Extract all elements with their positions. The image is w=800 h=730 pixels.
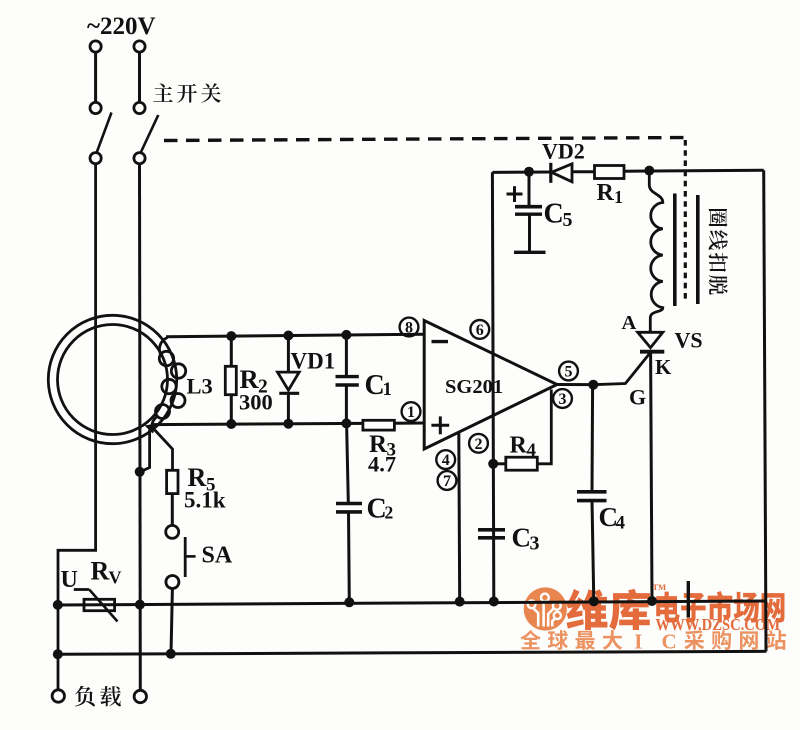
wire: C1 top lead	[345, 335, 348, 376]
svg-text:R: R	[91, 557, 110, 586]
label 负载 (load)	[75, 686, 95, 707]
wire: VD1 anode lead	[287, 335, 290, 373]
svg-text:G: G	[629, 385, 646, 410]
svg-text:SA: SA	[202, 543, 233, 569]
svg-text:3: 3	[530, 533, 540, 555]
capacitor C5 plus mark	[507, 193, 523, 196]
wire: right side return conductor	[764, 170, 766, 651]
dashed mechanical trip linkage, vertical run	[684, 140, 687, 302]
node: switch lower contact L	[90, 153, 101, 164]
node: switch upper contact L	[90, 102, 101, 113]
capacitor C5	[515, 205, 542, 209]
varistor RV body	[84, 599, 115, 610]
wire: mains conductor L through toroid down to load branch	[58, 163, 96, 690]
wire: VD1 cathode lead	[287, 394, 290, 424]
switch SA blade	[184, 537, 187, 577]
wire: winding lower end to conductor N	[141, 430, 150, 472]
svg-text:R: R	[597, 180, 615, 206]
pin 1	[402, 402, 421, 421]
wire: thyristor anode lead	[649, 330, 652, 333]
node: junction bottom of R2	[226, 419, 236, 429]
capacitor C2	[336, 502, 362, 506]
wire: gate lead	[593, 353, 650, 385]
node: rail junction thyristor cathode	[647, 596, 657, 606]
op-amp plus input sign	[431, 424, 449, 427]
resistor R3	[363, 420, 395, 430]
thyristor VS triangle	[638, 332, 663, 347]
capacitor C4	[577, 490, 607, 494]
trip coil core bar right	[696, 195, 700, 304]
svg-text:R: R	[510, 433, 528, 459]
node: junction bottom of C1	[341, 418, 351, 428]
varistor RV diagonal stroke with U foot	[74, 588, 89, 591]
svg-text:5: 5	[565, 364, 573, 381]
node: rail junction conductor N	[135, 600, 145, 610]
wire: R3 output to op-amp non-inverting input	[394, 422, 425, 425]
svg-text:5: 5	[563, 209, 573, 231]
wire: R2 top lead	[230, 336, 233, 367]
node: rail junction left branch lower	[53, 649, 63, 659]
svg-text:300: 300	[239, 390, 273, 415]
node: junction winding tap on conductor N	[135, 467, 145, 477]
wire: phase N lead	[138, 52, 141, 103]
wire: C5 top lead	[528, 172, 531, 205]
svg-text:4: 4	[527, 440, 537, 461]
wire: phase L lead	[94, 52, 97, 103]
svg-text:4: 4	[442, 452, 450, 469]
svg-text:C: C	[662, 630, 677, 654]
svg-text:VS: VS	[675, 328, 703, 353]
toroid core outer circle of current transformer	[48, 315, 176, 443]
capacitor C3	[478, 528, 505, 532]
wire: winding tap diagonal to R5	[152, 427, 173, 471]
dashed mechanical trip linkage, horizontal run	[164, 138, 686, 141]
node: switch upper contact N	[134, 102, 145, 113]
node: load terminal L	[52, 690, 64, 702]
pin 3	[553, 389, 572, 408]
node: AC mains terminal N	[134, 41, 145, 52]
node: rail junction pin 2 / C3	[489, 597, 499, 607]
svg-text:A: A	[622, 312, 637, 334]
node: junction bottom of VD1	[283, 419, 293, 429]
wire: R4 left lead	[493, 462, 506, 465]
op-amp minus input sign	[432, 340, 449, 343]
svg-text:3: 3	[559, 391, 567, 408]
svg-text:4.7: 4.7	[368, 452, 396, 477]
watermark text 维库	[566, 589, 607, 630]
watermark text 电子市场网	[656, 592, 679, 623]
node: rail junction C4	[589, 596, 599, 606]
secondary winding L3 loops on toroid	[159, 338, 167, 356]
trip coil core bar left	[673, 194, 677, 307]
switch blade SW-N of main switch	[141, 115, 159, 153]
diode VD2	[549, 163, 552, 183]
resistor R1	[595, 166, 625, 179]
pin 8	[400, 318, 419, 337]
thyristor VS cathode bar	[640, 350, 664, 354]
node: AC mains terminal L	[90, 41, 101, 52]
svg-text:8: 8	[405, 320, 413, 337]
node: junction R4 tap	[488, 459, 498, 469]
wire: C2 bottom lead to ground rail	[347, 512, 351, 602]
node: junction C5	[524, 167, 534, 177]
node: SA lower contact	[166, 576, 179, 589]
pin 4	[436, 450, 455, 469]
wire: C4 top lead from gate node	[591, 385, 595, 492]
svg-text:6: 6	[476, 322, 484, 339]
node: rail junction SA branch	[166, 649, 176, 659]
node: rail junction C2	[344, 597, 354, 607]
node: load terminal N	[134, 690, 146, 702]
watermark text 全球最大IC采购网站	[520, 630, 540, 649]
svg-text:1: 1	[407, 404, 415, 421]
resistor R4	[506, 457, 538, 470]
node: junction top of C1	[341, 330, 351, 340]
svg-text:1: 1	[614, 187, 623, 207]
svg-text:C: C	[544, 199, 564, 230]
wire: C4 bottom lead to ground rail	[592, 501, 594, 602]
wire: secondary bottom rail	[151, 423, 364, 424]
node: rail junction pins 4/7	[455, 597, 465, 607]
svg-text:2: 2	[475, 436, 483, 453]
diode VD1	[278, 372, 300, 390]
wire: C5 bottom lead	[528, 214, 531, 251]
svg-text:~220V: ~220V	[87, 13, 156, 40]
wire: stub crossing ground rail	[687, 581, 690, 618]
wire: R2 bottom lead	[230, 395, 233, 424]
svg-text:I: I	[634, 630, 642, 654]
toroid core inner circle	[58, 325, 168, 435]
wire: R5 bottom lead	[171, 494, 174, 525]
resistor R2	[225, 366, 236, 394]
wire: C1 bottom lead	[345, 385, 348, 424]
node: rail junction left branch upper	[53, 600, 63, 610]
svg-text:V: V	[109, 568, 122, 588]
wire: mains conductor N through toroid down to load	[138, 163, 142, 690]
node: junction top of VD1	[283, 331, 293, 341]
watermark logo circle	[524, 587, 567, 630]
wire: pins 4/7 ground line	[457, 433, 461, 602]
svg-text:C: C	[512, 523, 532, 553]
wire: lower return rail	[57, 651, 767, 654]
label 脱扣线圈 (trip coil), vertical	[709, 209, 728, 227]
wire: C2 top lead from bottom rail	[347, 424, 349, 502]
pin 7	[438, 471, 457, 490]
svg-text:1: 1	[383, 379, 393, 400]
svg-text:TM: TM	[653, 582, 667, 592]
capacitor C1	[336, 375, 359, 378]
wire: common ground rail	[57, 601, 766, 605]
wire: op-amp output to gate node	[557, 383, 593, 386]
pin 6	[470, 320, 489, 339]
pin 2	[469, 434, 488, 453]
svg-text:5.1k: 5.1k	[184, 488, 226, 513]
svg-text:U: U	[61, 567, 78, 593]
op-amp SG201 triangle	[424, 321, 557, 450]
wire: thyristor cathode down to ground rail	[651, 353, 652, 601]
label 主开关 (main switch)	[153, 83, 173, 101]
wire: supply line from top rail through pins 6/2 down to ground rail	[492, 172, 493, 601]
svg-text:L3: L3	[187, 374, 213, 399]
svg-text:K: K	[655, 355, 672, 379]
resistor R5	[167, 470, 178, 493]
pin 5	[559, 362, 578, 381]
svg-text:7: 7	[443, 473, 451, 490]
switch blade SW-L of main switch	[97, 113, 112, 154]
C5 bottom terminal bar	[514, 251, 546, 254]
watermark logo circuit-tree pattern	[533, 602, 556, 627]
node: junction top of R2	[226, 331, 236, 341]
trip coil inductor winding	[649, 171, 663, 332]
node: junction trip coil / R1	[644, 166, 654, 176]
svg-text:VD1: VD1	[291, 349, 336, 374]
svg-text:4: 4	[616, 513, 626, 534]
node: junction gate / C4	[588, 380, 598, 390]
node: SA upper contact	[166, 525, 179, 538]
wire: SA to lower rail	[171, 589, 172, 654]
wire: positive supply top run	[492, 171, 550, 174]
svg-text:2: 2	[385, 503, 394, 523]
node: switch lower contact N	[134, 153, 145, 164]
wire: R4 right lead up to pin 3	[537, 390, 551, 464]
svg-text:VD2: VD2	[542, 139, 585, 164]
wire: secondary top rail to op-amp inverting input (pin 8)	[166, 334, 425, 337]
